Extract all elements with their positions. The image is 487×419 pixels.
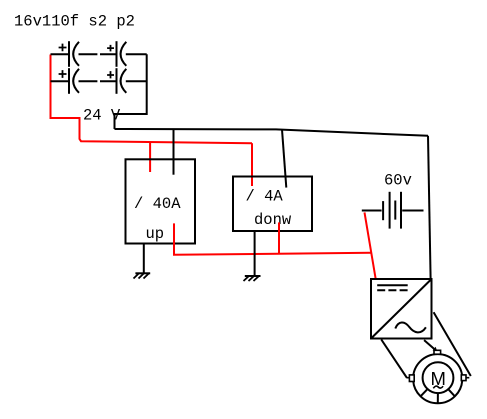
svg-text:/ 40A: / 40A: [134, 195, 181, 213]
label: 16v110f s2 p2: [14, 13, 135, 31]
wire: U2 output red down to bottom red bus: [278, 222, 280, 254]
capacitor C4 plus sign: [107, 71, 114, 78]
label: / 4A: [246, 188, 284, 206]
wire: U2 ground lead: [254, 231, 256, 276]
wire: black drop into converter U2 (4A): [282, 130, 286, 188]
capacitor C3 plus sign: [59, 70, 67, 78]
svg-text:24 V: 24 V: [83, 106, 121, 124]
battery B1 60v: [362, 192, 424, 229]
wire: red from battery negative down to inverter input: [365, 212, 376, 279]
ground under U2: [244, 276, 261, 281]
wire: red drop into converter U2 (4A): [251, 143, 253, 186]
motor M1: [413, 354, 462, 403]
wire: right side of capacitor bank down to 24 V node: [115, 54, 147, 129]
wire: inverter to motor top terminal with arrowhead: [424, 340, 437, 352]
converter U1 box (step-up): [126, 159, 196, 243]
wire: U1 output red down to bottom red bus: [174, 223, 371, 254]
svg-text:/ 4A: / 4A: [246, 188, 284, 206]
label: 60v: [384, 172, 412, 190]
svg-text:M: M: [431, 368, 446, 389]
capacitor C1: [51, 41, 98, 67]
svg-text:donw: donw: [254, 211, 292, 229]
label: 24 V: [83, 106, 121, 124]
inverter U3 box: [371, 279, 432, 339]
capacitor C1 plus sign: [59, 44, 67, 52]
motor top terminal: [434, 350, 441, 354]
svg-text:16v110f s2 p2: 16v110f s2 p2: [14, 13, 135, 31]
capacitor C3: [51, 68, 98, 94]
label: up: [146, 225, 165, 243]
capacitor C2: [100, 41, 147, 67]
label: donw: [254, 211, 292, 229]
capacitor C4: [100, 68, 147, 94]
converter U2 box (step-down): [233, 177, 312, 232]
wire: black stub into converter U1 (40A): [173, 129, 175, 175]
wire: U1 ground lead: [143, 244, 145, 274]
svg-text:60v: 60v: [384, 172, 412, 190]
label: / 40A: [134, 195, 181, 213]
wire: red left bus of capacitor bank: [51, 55, 253, 144]
wire: top black bus from 24 V node to right side: [115, 129, 429, 136]
motor tilde: [433, 386, 443, 388]
motor left terminal: [406, 375, 414, 382]
wire: inverter to motor left terminal: [381, 340, 407, 378]
ground under U1: [134, 273, 151, 278]
svg-text:up: up: [146, 225, 165, 243]
wire: diagonal from right bus to motor right terminal: [434, 312, 471, 376]
label: M: [431, 368, 446, 389]
wire: black right bus from top down to inverter: [428, 136, 431, 279]
capacitor C2 plus sign: [107, 45, 114, 52]
motor right terminal: [461, 375, 469, 381]
wire: red stub into converter U1 (40A): [149, 142, 151, 172]
